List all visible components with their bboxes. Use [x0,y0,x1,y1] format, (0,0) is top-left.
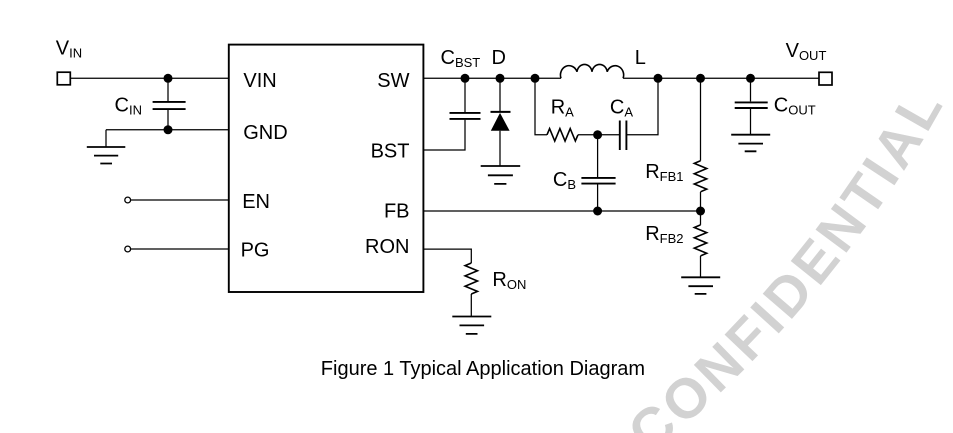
svg-text:BST: BST [371,141,410,163]
svg-text:EN: EN [242,191,270,213]
svg-text:RON: RON [365,236,409,258]
svg-text:L: L [635,47,646,69]
svg-text:GND: GND [243,122,287,144]
svg-text:D: D [492,47,506,69]
svg-text:Figure 1 Typical Application D: Figure 1 Typical Application Diagram [321,358,645,380]
svg-text:VIN: VIN [243,70,276,92]
svg-text:SW: SW [377,70,409,92]
svg-text:FB: FB [384,201,410,223]
svg-text:PG: PG [241,239,270,261]
